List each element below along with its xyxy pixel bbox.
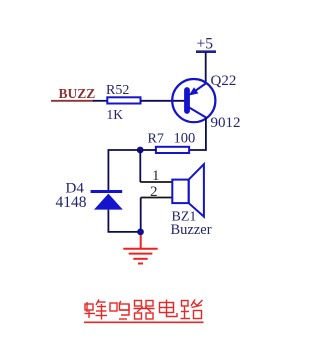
pin 1 bbox=[140, 181, 172, 183]
wire BUZZ to R52 bbox=[93, 100, 108, 102]
buzzer BZ1 bbox=[172, 164, 204, 216]
wire node to diode D4 bbox=[108, 150, 140, 191]
node junction B bbox=[137, 229, 144, 236]
svg-text:R52: R52 bbox=[106, 83, 129, 98]
pin 2 bbox=[141, 197, 173, 199]
wire pin 2 to ground node bbox=[140, 198, 142, 232]
char ming bbox=[110, 301, 129, 319]
svg-text:1K: 1K bbox=[107, 107, 124, 122]
svg-text:2: 2 bbox=[150, 184, 158, 200]
title 蜂鸣器电路 bbox=[84, 300, 204, 323]
svg-text:R7: R7 bbox=[148, 131, 164, 146]
wire diode to ground node bbox=[108, 210, 138, 232]
ground bbox=[123, 235, 157, 264]
resistor R52 bbox=[107, 97, 140, 103]
char lu bbox=[181, 300, 203, 319]
net label BUZZ bbox=[51, 86, 95, 101]
svg-text:4148: 4148 bbox=[56, 194, 87, 211]
power bar bbox=[196, 50, 216, 53]
svg-text:100: 100 bbox=[174, 131, 196, 147]
wire R52 to Q22 base bbox=[141, 100, 185, 102]
svg-text:Q22: Q22 bbox=[211, 73, 237, 89]
diode D4 bbox=[91, 192, 123, 210]
svg-text:9012: 9012 bbox=[211, 115, 241, 131]
char dian bbox=[160, 300, 178, 317]
wire node to buzzer pin 1 bbox=[139, 150, 141, 182]
node junction A bbox=[137, 147, 144, 154]
svg-text:Buzzer: Buzzer bbox=[171, 222, 212, 238]
transistor Q22 bbox=[172, 79, 215, 122]
wire Q22 collector to R7 bbox=[189, 118, 206, 151]
svg-text:+5: +5 bbox=[197, 36, 214, 53]
resistor R7 bbox=[156, 147, 189, 153]
char feng bbox=[85, 300, 108, 320]
svg-text:1: 1 bbox=[152, 168, 160, 184]
wire node to R7 bbox=[140, 149, 156, 151]
wire +5 to Q22 emitter bbox=[205, 52, 207, 85]
char qi bbox=[134, 301, 155, 320]
title underline bbox=[84, 321, 204, 323]
svg-text:BUZZ: BUZZ bbox=[59, 86, 96, 101]
